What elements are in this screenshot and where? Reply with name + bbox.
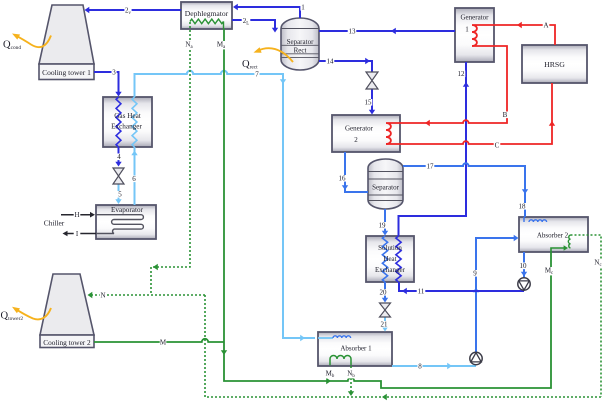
wire 19 — [382, 209, 388, 236]
wire 2L — [232, 20, 278, 33]
valve V1 — [113, 168, 124, 184]
svg-text:1: 1 — [301, 4, 305, 12]
svg-text:10: 10 — [520, 262, 528, 270]
svg-text:A: A — [543, 22, 548, 30]
wire 10 — [521, 252, 527, 277]
svg-text:Cooling tower 1: Cooling tower 1 — [42, 68, 91, 77]
label 1 — [300, 4, 305, 12]
label 16 — [338, 175, 347, 183]
svg-text:B: B — [503, 111, 508, 119]
svg-text:Evaporator: Evaporator — [111, 206, 144, 214]
svg-text:Generator: Generator — [345, 125, 374, 133]
svg-text:Absorber 2: Absorber 2 — [537, 232, 569, 240]
svg-text:Exchanger: Exchanger — [111, 123, 142, 131]
cooling tower 1 — [39, 5, 94, 80]
wire 12 — [399, 62, 470, 236]
svg-text:1: 1 — [465, 26, 469, 34]
svg-text:Dephlegmator: Dephlegmator — [185, 9, 229, 18]
svg-text:Rect: Rect — [294, 47, 307, 55]
svg-text:Absorber 1: Absorber 1 — [340, 345, 372, 353]
label Mb — [326, 370, 335, 380]
wire N riser — [204, 295, 206, 397]
label Na — [185, 41, 194, 51]
label 2L — [242, 17, 251, 27]
label A — [543, 22, 550, 30]
heat flow arrow Qtower2 — [1, 307, 52, 322]
svg-text:M: M — [160, 339, 167, 347]
svg-text:Solution: Solution — [378, 244, 402, 252]
wire 14 — [319, 58, 372, 72]
svg-text:HRSG: HRSG — [544, 60, 565, 69]
label 15 — [364, 99, 373, 107]
label N — [100, 292, 107, 300]
evaporator — [96, 205, 156, 239]
svg-text:14: 14 — [327, 58, 335, 66]
generator 1 coil — [472, 25, 494, 46]
absorber 1 cooling coil — [330, 356, 351, 366]
label 9 — [472, 270, 477, 278]
label 14 — [326, 58, 335, 66]
label 13 — [348, 28, 357, 36]
gas heat exchanger label — [111, 112, 142, 131]
wire Ma — [223, 29, 225, 342]
wire 7 — [135, 71, 316, 341]
wire 11 — [399, 282, 524, 294]
wire M to absorbers — [221, 252, 551, 388]
wire 2v — [85, 7, 182, 13]
gas heat exchanger — [103, 97, 152, 147]
label Nc — [594, 259, 603, 269]
label M — [160, 339, 167, 347]
wire I — [63, 231, 97, 237]
wire 16 — [342, 152, 368, 192]
label 17 — [426, 163, 435, 171]
svg-text:3: 3 — [112, 69, 116, 77]
solution heat exchanger — [366, 236, 414, 282]
wire B — [400, 46, 507, 126]
svg-text:20: 20 — [380, 289, 388, 297]
svg-text:5: 5 — [118, 191, 122, 199]
wire N — [88, 292, 206, 298]
wire 20 — [382, 282, 388, 303]
gas heat exchanger cold coil — [132, 97, 137, 147]
generator 2 — [332, 115, 400, 152]
valve V2 — [366, 72, 378, 89]
wire Nc — [571, 235, 602, 397]
label Ma — [217, 41, 226, 51]
svg-text:Generator: Generator — [461, 14, 490, 22]
wire 21 — [382, 317, 388, 332]
wire 1 — [233, 4, 300, 18]
label 7 — [254, 71, 259, 79]
label 12 — [457, 70, 466, 78]
wire 8 — [392, 363, 476, 369]
svg-text:Gas Heat: Gas Heat — [114, 112, 141, 120]
svg-text:13: 13 — [349, 28, 357, 36]
pump P2 — [470, 352, 482, 364]
label 8 — [417, 363, 422, 371]
svg-text:Chiller: Chiller — [44, 219, 65, 228]
svg-text:H: H — [74, 211, 79, 219]
label 21 — [380, 321, 389, 329]
label B — [502, 111, 509, 119]
pump P1 — [518, 278, 530, 290]
solution hx cold coil — [382, 236, 387, 282]
label 6 — [131, 175, 136, 183]
wire 6 — [131, 147, 137, 205]
label 2v — [124, 7, 131, 17]
svg-text:Heat: Heat — [383, 255, 396, 263]
label 10 — [519, 262, 528, 270]
dephlegmator coil — [190, 19, 224, 29]
svg-text:16: 16 — [339, 175, 347, 183]
absorber 1 liquid surface — [318, 336, 351, 338]
svg-text:17: 17 — [427, 163, 435, 171]
evaporator coil — [96, 215, 143, 234]
wire Nb — [348, 366, 354, 396]
label H — [74, 211, 81, 219]
heat flow arrow Qcond — [3, 34, 51, 52]
label Chiller — [44, 219, 65, 228]
wire 5 — [115, 184, 121, 204]
absorber 2 cooling coil — [551, 235, 571, 252]
svg-text:9: 9 — [473, 270, 477, 278]
svg-text:N: N — [100, 292, 105, 300]
wire C — [400, 83, 555, 144]
solution heat exchanger label — [375, 244, 406, 274]
svg-text:7: 7 — [255, 71, 259, 79]
separator rect vessel — [281, 18, 319, 70]
label 18 — [518, 203, 527, 211]
svg-text:21: 21 — [381, 321, 389, 329]
svg-text:12: 12 — [458, 70, 466, 78]
label 11 — [417, 288, 426, 296]
label Nb — [347, 370, 356, 380]
svg-text:Exchanger: Exchanger — [375, 266, 406, 274]
wire 15 — [369, 89, 375, 115]
wire 13 — [319, 28, 455, 34]
label 5 — [118, 191, 123, 199]
svg-text:Separator: Separator — [372, 184, 399, 192]
svg-text:15: 15 — [365, 99, 373, 107]
cooling tower 2 — [40, 274, 94, 348]
dephlegmator — [181, 2, 232, 29]
heat flow arrow Qrect — [242, 47, 293, 70]
absorber 1 — [318, 332, 392, 366]
wire H — [61, 212, 95, 218]
svg-text:11: 11 — [418, 288, 425, 296]
svg-text:6: 6 — [132, 175, 136, 183]
valve V3 — [380, 303, 391, 317]
svg-text:C: C — [495, 142, 500, 150]
generator 1 — [455, 8, 494, 62]
wire 4 — [115, 147, 121, 167]
solution hx hot coil — [396, 236, 401, 282]
gas heat exchanger hot coil — [116, 97, 121, 147]
label I — [74, 230, 81, 238]
label 3 — [112, 69, 117, 77]
HRSG — [522, 45, 587, 83]
absorber 2 liquid surface — [524, 217, 547, 222]
label 20 — [379, 289, 388, 297]
generator 2 coil — [386, 123, 400, 144]
svg-text:18: 18 — [519, 203, 527, 211]
wire 9 — [473, 235, 519, 352]
label Mc — [545, 267, 554, 277]
wire M — [94, 339, 224, 342]
wire N return — [205, 394, 601, 400]
separator vessel — [368, 159, 403, 209]
label 4 — [117, 153, 122, 161]
svg-text:4: 4 — [117, 153, 121, 161]
label 19 — [378, 222, 387, 230]
svg-text:19: 19 — [379, 222, 387, 230]
svg-text:8: 8 — [418, 363, 422, 371]
svg-text:Cooling tower 2: Cooling tower 2 — [43, 338, 91, 347]
label C — [494, 142, 501, 150]
absorber 2 — [519, 217, 588, 252]
wire Na — [151, 22, 190, 295]
wire A — [494, 22, 555, 45]
wire 3 — [94, 72, 122, 97]
wire 17 — [403, 163, 528, 217]
svg-text:Separator: Separator — [287, 38, 314, 46]
svg-text:2: 2 — [354, 136, 358, 144]
